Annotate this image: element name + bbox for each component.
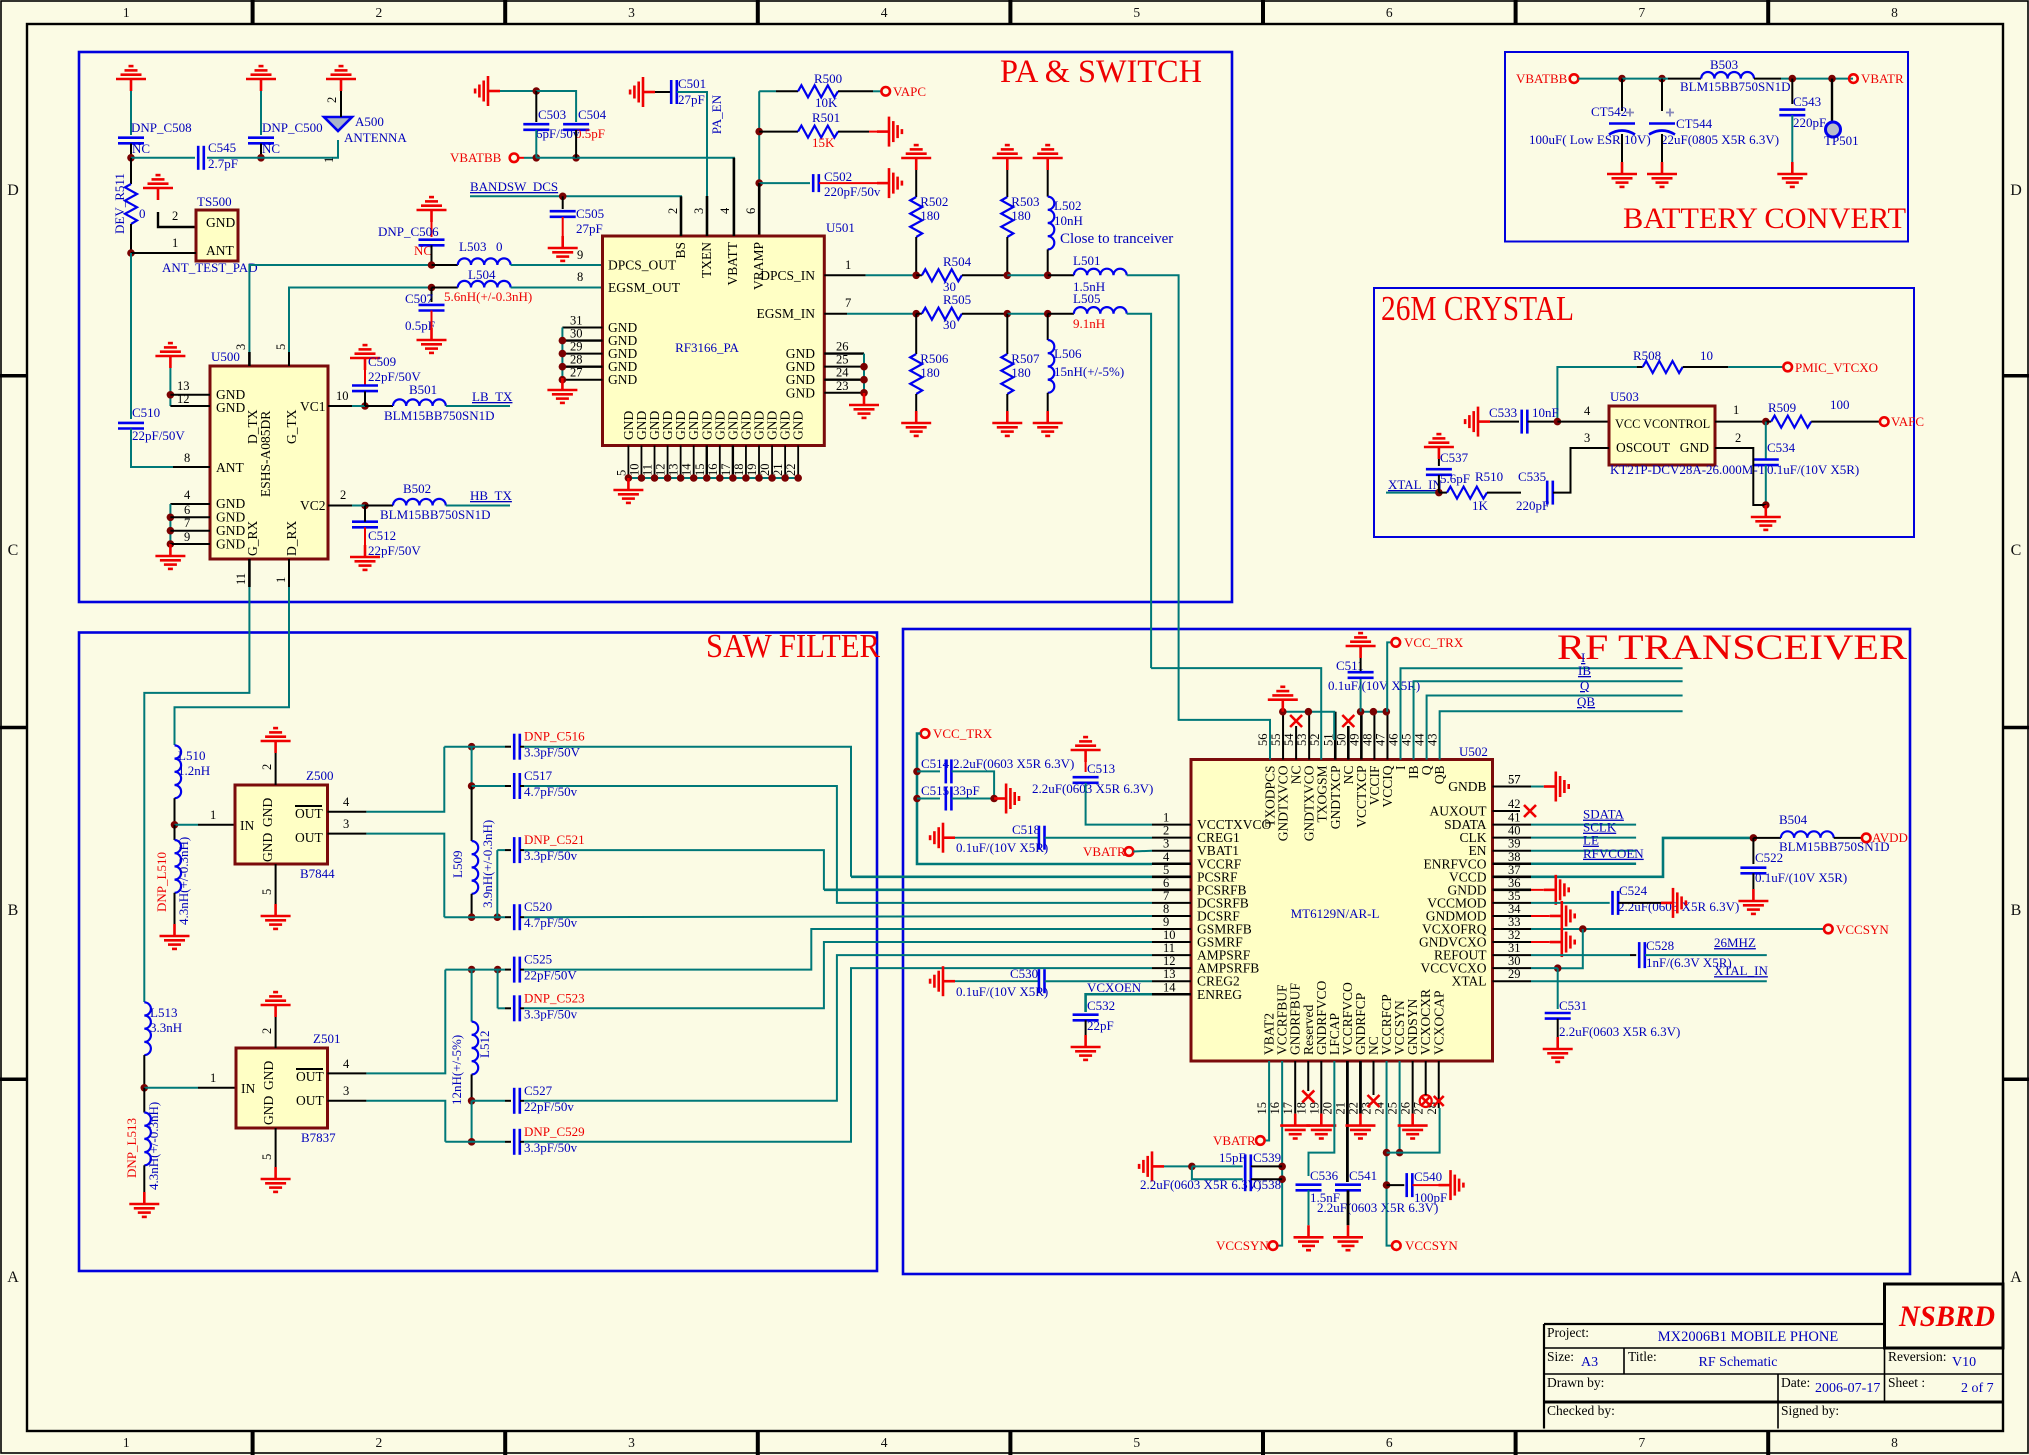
ground U500 pins4-9 <box>155 544 185 569</box>
svg-text:19: 19 <box>745 464 759 477</box>
svg-text:2: 2 <box>260 1028 274 1034</box>
svg-text:C525: C525 <box>524 952 552 967</box>
wire to R501 <box>759 131 798 133</box>
lead R508 right <box>1683 366 1729 368</box>
svg-text:43: 43 <box>1426 734 1440 747</box>
pin 1 U500 <box>288 559 290 587</box>
svg-text:C534: C534 <box>1767 440 1796 455</box>
svg-text:8: 8 <box>577 270 583 284</box>
ground right of GNDVCXO <box>1550 927 1575 957</box>
svg-text:1: 1 <box>1163 811 1169 825</box>
wire to C502 <box>759 182 810 184</box>
svg-text:L504: L504 <box>468 267 496 282</box>
capacitor C531 <box>1545 1013 1571 1019</box>
svg-text:100pF: 100pF <box>1414 1190 1447 1205</box>
pin 13 U501 <box>680 446 682 479</box>
ground TS500 pin2 <box>143 175 173 200</box>
wire pin10 <box>352 405 365 407</box>
stem C502 gnd <box>819 182 877 184</box>
wire L503 to DPCS_OUT <box>511 264 603 266</box>
svg-text:GND: GND <box>216 537 245 552</box>
26M CRYSTAL block outline <box>1374 288 1914 537</box>
junction R509/C534 <box>1762 418 1770 426</box>
wire to C515 <box>917 798 940 800</box>
wire Q net <box>1427 696 1683 760</box>
svg-text:9: 9 <box>577 248 583 262</box>
junction C515 <box>913 795 921 803</box>
ferrite bead B503 <box>1701 72 1754 79</box>
svg-text:C527: C527 <box>524 1083 553 1098</box>
svg-text:RF Schematic: RF Schematic <box>1699 1355 1778 1370</box>
pin 29 U502 <box>1493 980 1532 982</box>
svg-text:29: 29 <box>570 340 583 354</box>
capacitor C534 <box>1753 460 1779 466</box>
wire U501 right gnd chain <box>863 354 865 393</box>
ground under CT544 <box>1647 162 1677 187</box>
svg-text:U503: U503 <box>1610 389 1639 404</box>
wire VBATBB2 <box>1578 78 1622 80</box>
wire Z500 pin4 up <box>366 747 444 812</box>
wire to R500 <box>759 90 776 92</box>
svg-text:XTAL_IN: XTAL_IN <box>1714 963 1768 978</box>
wire down to C531 <box>1557 968 1559 1009</box>
svg-text:27pF: 27pF <box>576 221 603 236</box>
capacitor C541 <box>1335 1185 1361 1191</box>
wire SDATA <box>1531 824 1636 826</box>
capacitor DNP_C523 <box>514 995 520 1021</box>
svg-text:3.9nH(+/-0.3nH): 3.9nH(+/-0.3nH) <box>480 820 495 908</box>
svg-text:MX2006B1 MOBILE PHONE: MX2006B1 MOBILE PHONE <box>1658 1329 1839 1345</box>
capacitor C514 <box>946 759 952 783</box>
svg-text:B: B <box>8 902 19 919</box>
wire DNP_C523 left leg <box>497 970 499 1009</box>
svg-text:Reversion:: Reversion: <box>1888 1349 1947 1364</box>
capacitor C512 <box>352 522 378 528</box>
svg-text:3: 3 <box>628 1435 635 1450</box>
port VCCSYN right <box>1824 925 1833 934</box>
ground under C531 <box>1543 1037 1573 1062</box>
svg-text:4: 4 <box>718 207 732 214</box>
svg-text:19: 19 <box>1307 1102 1321 1115</box>
capacitor C504 <box>563 124 589 130</box>
junction L512 bottom <box>468 1097 476 1105</box>
pin 42 U502 <box>1493 810 1521 812</box>
junction node ANT/C545 <box>127 154 135 162</box>
wire node2 to C510 <box>130 253 132 419</box>
svg-text:NC: NC <box>132 141 150 156</box>
wire REFOUT to C528 <box>1531 954 1630 956</box>
svg-text:8: 8 <box>1163 902 1169 916</box>
svg-text:VCCSYN: VCCSYN <box>1405 1238 1458 1253</box>
svg-text:17: 17 <box>719 464 733 477</box>
ground under pin26 <box>1398 1114 1428 1139</box>
lead R500 <box>776 90 798 92</box>
svg-text:OUT: OUT <box>295 806 323 821</box>
svg-text:1: 1 <box>123 1435 130 1450</box>
no-ERC mark pin 27 <box>1420 1095 1432 1107</box>
svg-text:20: 20 <box>1320 1102 1334 1115</box>
svg-text:0: 0 <box>496 239 503 254</box>
svg-text:GND: GND <box>260 833 275 862</box>
wire C534 down <box>1765 465 1767 505</box>
ground right of R501 <box>877 117 902 147</box>
ground above DNP_C508 <box>116 66 146 91</box>
svg-text:10nH: 10nH <box>1054 213 1083 228</box>
wire L501 to TXODPCS net <box>1127 275 1179 720</box>
svg-text:13: 13 <box>177 379 190 393</box>
wire VCCD to B504 <box>1531 838 1753 877</box>
pin 19 wire <box>1320 1061 1322 1114</box>
junction CT544 <box>1658 75 1666 83</box>
svg-text:R504: R504 <box>943 254 972 269</box>
pin 1 U502 <box>1152 824 1191 826</box>
resistor R501 <box>798 126 838 138</box>
svg-text:C517: C517 <box>524 768 553 783</box>
wire to C538 <box>1192 1166 1243 1179</box>
wire to C522 <box>1752 838 1754 864</box>
svg-text:2.2uF(0603 X5R 6.3V): 2.2uF(0603 X5R 6.3V) <box>1559 1024 1680 1039</box>
svg-text:B503: B503 <box>1710 57 1738 72</box>
ground left of C533 <box>1465 407 1490 437</box>
svg-text:B: B <box>2011 902 2022 919</box>
lead C543 <box>1791 79 1793 104</box>
junction C509/B501 <box>361 402 369 410</box>
wire EGSM_IN to R505 <box>847 313 916 315</box>
junction C539 left <box>1188 1163 1196 1171</box>
svg-text:26: 26 <box>836 340 849 354</box>
resistor R507 <box>1001 354 1013 394</box>
svg-text:BATTERY CONVERT: BATTERY CONVERT <box>1623 202 1906 235</box>
svg-text:0: 0 <box>139 206 146 221</box>
svg-text:VBATR: VBATR <box>1861 71 1904 86</box>
svg-text:31: 31 <box>570 314 583 328</box>
pin 3 Z501 <box>328 1100 367 1102</box>
wire node to B502 <box>365 505 393 507</box>
ferrite bead B501 <box>393 399 446 406</box>
wire QB net <box>1440 711 1683 759</box>
svg-text:Checked by:: Checked by: <box>1547 1403 1615 1418</box>
svg-text:C: C <box>2011 542 2022 559</box>
capacitor DNP_C516 <box>514 734 520 760</box>
pin 16 U501 <box>719 446 721 479</box>
junction C540 <box>1383 1181 1391 1189</box>
pin 22 U501 <box>797 446 799 479</box>
svg-text:DPCS_OUT: DPCS_OUT <box>608 258 677 273</box>
svg-text:5: 5 <box>260 889 274 895</box>
svg-text:1: 1 <box>210 1071 216 1085</box>
svg-text:17: 17 <box>1281 1102 1295 1115</box>
svg-text:27pF: 27pF <box>678 92 705 107</box>
svg-text:DPCS_IN: DPCS_IN <box>760 268 815 283</box>
svg-text:Signed by:: Signed by: <box>1781 1403 1839 1418</box>
svg-text:26: 26 <box>1399 1102 1413 1115</box>
svg-text:4: 4 <box>184 488 191 502</box>
wire R503 down <box>1006 237 1008 275</box>
svg-text:11: 11 <box>234 573 248 585</box>
svg-text:VC2: VC2 <box>300 498 326 513</box>
svg-text:100: 100 <box>1830 397 1850 412</box>
svg-text:VRAMP: VRAMP <box>751 242 766 290</box>
wire U500 pin1 to L510 <box>175 587 290 745</box>
resistor R500 <box>798 85 838 97</box>
svg-text:3: 3 <box>628 5 635 20</box>
no-connect X pin 18 <box>1302 1090 1314 1102</box>
pin 12 U501 <box>667 446 669 479</box>
svg-text:R507: R507 <box>1011 351 1040 366</box>
junction R502/R504 <box>912 272 920 280</box>
svg-text:TP501: TP501 <box>1824 133 1859 148</box>
svg-text:B7844: B7844 <box>300 866 335 881</box>
svg-text:22: 22 <box>784 464 798 477</box>
wire C535 to pin3 <box>1553 448 1609 493</box>
capacitor DNP_C500 <box>248 138 274 144</box>
svg-text:36: 36 <box>1508 876 1521 890</box>
svg-text:1: 1 <box>210 808 216 822</box>
svg-text:VCCSYN: VCCSYN <box>1836 922 1889 937</box>
junction R501 <box>755 128 763 136</box>
svg-text:2: 2 <box>260 764 274 770</box>
svg-text:U501: U501 <box>826 220 855 235</box>
svg-text:16: 16 <box>1268 1102 1282 1115</box>
pin 21 U501 <box>784 446 786 479</box>
port VCCSYN bottom right <box>1392 1241 1401 1250</box>
pin 6 U502 <box>1152 889 1191 892</box>
port PMIC_VTCXO <box>1783 363 1792 372</box>
no-connect X pin 23 <box>1368 1095 1380 1107</box>
ground under DNP_L510 <box>160 924 190 949</box>
svg-text:22pF/50V: 22pF/50V <box>132 428 185 443</box>
inductor L503 <box>458 258 511 265</box>
wire gnd to C500 <box>260 91 262 135</box>
junction pin53 <box>1305 708 1313 716</box>
pin 3 Z500 <box>328 833 367 835</box>
pin 7 U500 <box>170 530 210 532</box>
junction U503 pin4 <box>1554 418 1562 426</box>
svg-text:VCC_TRX: VCC_TRX <box>933 726 993 741</box>
junction B504/C522 <box>1750 834 1758 842</box>
pin 14 U501 <box>693 446 695 479</box>
svg-text:RF TRANSCEIVER: RF TRANSCEIVER <box>1557 627 1907 667</box>
lead C511 top <box>1360 658 1362 671</box>
ground above pin55 bus <box>1268 687 1298 712</box>
junction L509 bottom <box>468 913 476 921</box>
wire C530 left <box>955 980 1039 982</box>
svg-text:2: 2 <box>376 1435 383 1450</box>
svg-text:EGSM_OUT: EGSM_OUT <box>608 280 681 295</box>
pin 11 U500 <box>248 559 251 587</box>
wire row C525 left <box>445 969 505 971</box>
svg-text:GND: GND <box>260 798 275 827</box>
pin 54 wire <box>1295 726 1297 760</box>
pin 37 U502 <box>1493 875 1532 878</box>
ground under C543 <box>1777 162 1807 187</box>
svg-text:14: 14 <box>680 463 694 476</box>
svg-text:L509: L509 <box>450 851 465 878</box>
wire row DNP_C523 left <box>498 1007 505 1009</box>
svg-text:1K: 1K <box>1472 498 1489 513</box>
inductor L501 <box>1074 269 1127 276</box>
port VAFC <box>1880 417 1889 426</box>
svg-text:NC: NC <box>262 141 280 156</box>
pin 14 U502 <box>1152 993 1191 996</box>
svg-text:C533: C533 <box>1489 405 1517 420</box>
svg-text:R505: R505 <box>943 292 971 307</box>
ground right of GNDMOD <box>1550 901 1575 931</box>
svg-text:39: 39 <box>1508 837 1521 851</box>
svg-text:MT6129N/AR-L: MT6129N/AR-L <box>1291 906 1380 921</box>
capacitor C540 <box>1407 1173 1413 1197</box>
junction R507/R505 <box>1004 310 1012 318</box>
svg-text:22pF: 22pF <box>1087 1018 1114 1033</box>
capacitor C501 <box>671 80 677 104</box>
wire node to C507 <box>431 288 433 303</box>
svg-text:GND: GND <box>791 411 806 440</box>
wire pin16 to VCCSYN <box>1277 1061 1282 1246</box>
junction R511/TS500/C510 <box>127 249 135 257</box>
svg-text:DNP_C508: DNP_C508 <box>131 120 192 135</box>
ground under C505 <box>548 236 578 261</box>
wire DNP_C529 to AMPSRFB <box>524 968 1152 1142</box>
svg-text:0.1uF/(10V X5R): 0.1uF/(10V X5R) <box>1755 870 1847 885</box>
pin 4 U502 <box>1152 862 1191 865</box>
svg-text:28: 28 <box>570 353 583 367</box>
svg-text:U500: U500 <box>211 349 240 364</box>
svg-text:QB: QB <box>1577 694 1595 709</box>
svg-text:C535: C535 <box>1518 469 1546 484</box>
wire to C540 <box>1387 1184 1405 1186</box>
junction pin9 <box>167 540 175 548</box>
svg-text:PMIC_VTCXO: PMIC_VTCXO <box>1795 360 1878 375</box>
svg-text:GND: GND <box>608 372 637 387</box>
ground U501 left pins <box>547 378 577 403</box>
resistor R506 <box>910 354 922 394</box>
junction pin49 <box>1357 708 1365 716</box>
pin 18 U501 <box>745 446 747 479</box>
wire GNDB <box>1531 786 1544 788</box>
pin 6 U500 <box>170 516 210 518</box>
wire to L504 <box>432 287 458 289</box>
svg-text:35: 35 <box>1508 889 1521 903</box>
wire XTAL to XTAL_IN <box>1531 980 1767 982</box>
wire gnd chain U500 left <box>169 368 171 406</box>
wire C517 to DCSRFB <box>524 786 1152 903</box>
wire VRAMP net vertical <box>758 91 760 183</box>
ground above Z500 <box>261 728 291 753</box>
svg-text:5.6pF: 5.6pF <box>1440 471 1470 486</box>
svg-text:180: 180 <box>1011 208 1031 223</box>
svg-text:3: 3 <box>1163 837 1169 851</box>
svg-text:Z501: Z501 <box>313 1031 340 1046</box>
lead CT544 <box>1661 79 1663 111</box>
svg-text:40: 40 <box>1508 824 1521 838</box>
svg-text:VBATR: VBATR <box>1083 844 1126 859</box>
svg-text:3: 3 <box>692 208 706 214</box>
svg-text:7: 7 <box>1639 5 1646 20</box>
svg-text:C511: C511 <box>1336 658 1364 673</box>
svg-text:R501: R501 <box>812 110 840 125</box>
junction L512 top <box>468 966 476 974</box>
pin 17 wire <box>1294 1061 1296 1114</box>
pin 5 U501 <box>627 446 629 479</box>
svg-text:C530: C530 <box>1010 966 1038 981</box>
svg-text:33pF: 33pF <box>953 783 980 798</box>
pin 2 U500 <box>328 505 352 507</box>
lead B504 right <box>1834 837 1862 839</box>
wire node to B501 <box>365 405 393 407</box>
resistor DEV_R511 <box>125 184 137 224</box>
svg-text:25: 25 <box>1386 1102 1400 1115</box>
svg-text:L513: L513 <box>150 1005 177 1020</box>
resistor R503 <box>1001 197 1013 237</box>
wire C515 right <box>952 798 995 800</box>
port VCC_TRX left <box>921 729 930 738</box>
ground right of C540 <box>1439 1170 1464 1200</box>
pin 11 U501 <box>654 446 656 479</box>
svg-text:GND: GND <box>261 1061 276 1090</box>
wire gnd to L502 <box>1047 170 1049 197</box>
wire C510 to U500 ANT <box>131 429 210 468</box>
svg-text:XTAL: XTAL <box>1452 974 1487 989</box>
inductor DNP_L510 <box>175 840 182 893</box>
svg-text:C541: C541 <box>1349 1168 1377 1183</box>
svg-text:2.2uF(0603 X5R 6.3V): 2.2uF(0603 X5R 6.3V) <box>953 756 1074 771</box>
svg-text:9: 9 <box>1163 915 1169 929</box>
ground above L502 <box>1033 145 1063 170</box>
lead B503 <box>1668 78 1701 80</box>
svg-text:5: 5 <box>260 1154 274 1160</box>
svg-text:EGSM_IN: EGSM_IN <box>756 306 815 321</box>
capacitor C545 <box>198 146 204 170</box>
svg-text:NSBRD: NSBRD <box>1898 1300 1995 1333</box>
svg-text:2.2uF(0603 X5R 6.3V): 2.2uF(0603 X5R 6.3V) <box>1618 899 1739 914</box>
svg-text:C543: C543 <box>1793 94 1821 109</box>
capacitor C524 <box>1613 891 1619 915</box>
pin 57 U502 <box>1493 786 1532 788</box>
inductor L505 <box>1074 307 1127 314</box>
svg-text:5: 5 <box>1133 1435 1140 1450</box>
svg-text:22uF(0805 X5R 6.3V): 22uF(0805 X5R 6.3V) <box>1661 132 1779 147</box>
wire VBATR to VBAT1 <box>1133 850 1152 853</box>
ground right of C524 <box>1661 888 1686 918</box>
ground left of C539 <box>1139 1151 1164 1181</box>
svg-text:55: 55 <box>1269 734 1283 747</box>
wire pin28 link <box>1387 1108 1440 1153</box>
svg-text:Project:: Project: <box>1547 1325 1589 1340</box>
svg-text:U502: U502 <box>1459 744 1488 759</box>
svg-text:13: 13 <box>1163 967 1176 981</box>
wire C505 to gnd <box>562 217 564 236</box>
pin 17 U501 <box>732 446 734 479</box>
capacitor C513 <box>1073 777 1099 783</box>
svg-text:G_TX: G_TX <box>284 409 299 444</box>
ferrite bead B504 <box>1781 831 1834 838</box>
svg-text:D: D <box>2010 182 2022 199</box>
resistor R509 <box>1771 416 1811 428</box>
svg-text:0.1uF/(10V X5R): 0.1uF/(10V X5R) <box>956 840 1048 855</box>
junction R506/R505 <box>912 310 920 318</box>
junction C543 <box>1789 75 1797 83</box>
svg-text:6: 6 <box>744 208 758 214</box>
svg-text:GND: GND <box>786 385 815 400</box>
svg-text:100uF( Low ESR 10V): 100uF( Low ESR 10V) <box>1529 132 1651 147</box>
junction C537 <box>1435 489 1443 497</box>
wire C514 to C515 node <box>952 771 995 798</box>
port VBATR bottom <box>1256 1136 1265 1145</box>
wire C512 to gnd <box>364 527 366 545</box>
wire to Z500 pin1 <box>175 824 199 826</box>
wire C520 to DCSRF <box>524 916 1152 917</box>
capacitor CT544 (polarized) <box>1649 124 1675 135</box>
